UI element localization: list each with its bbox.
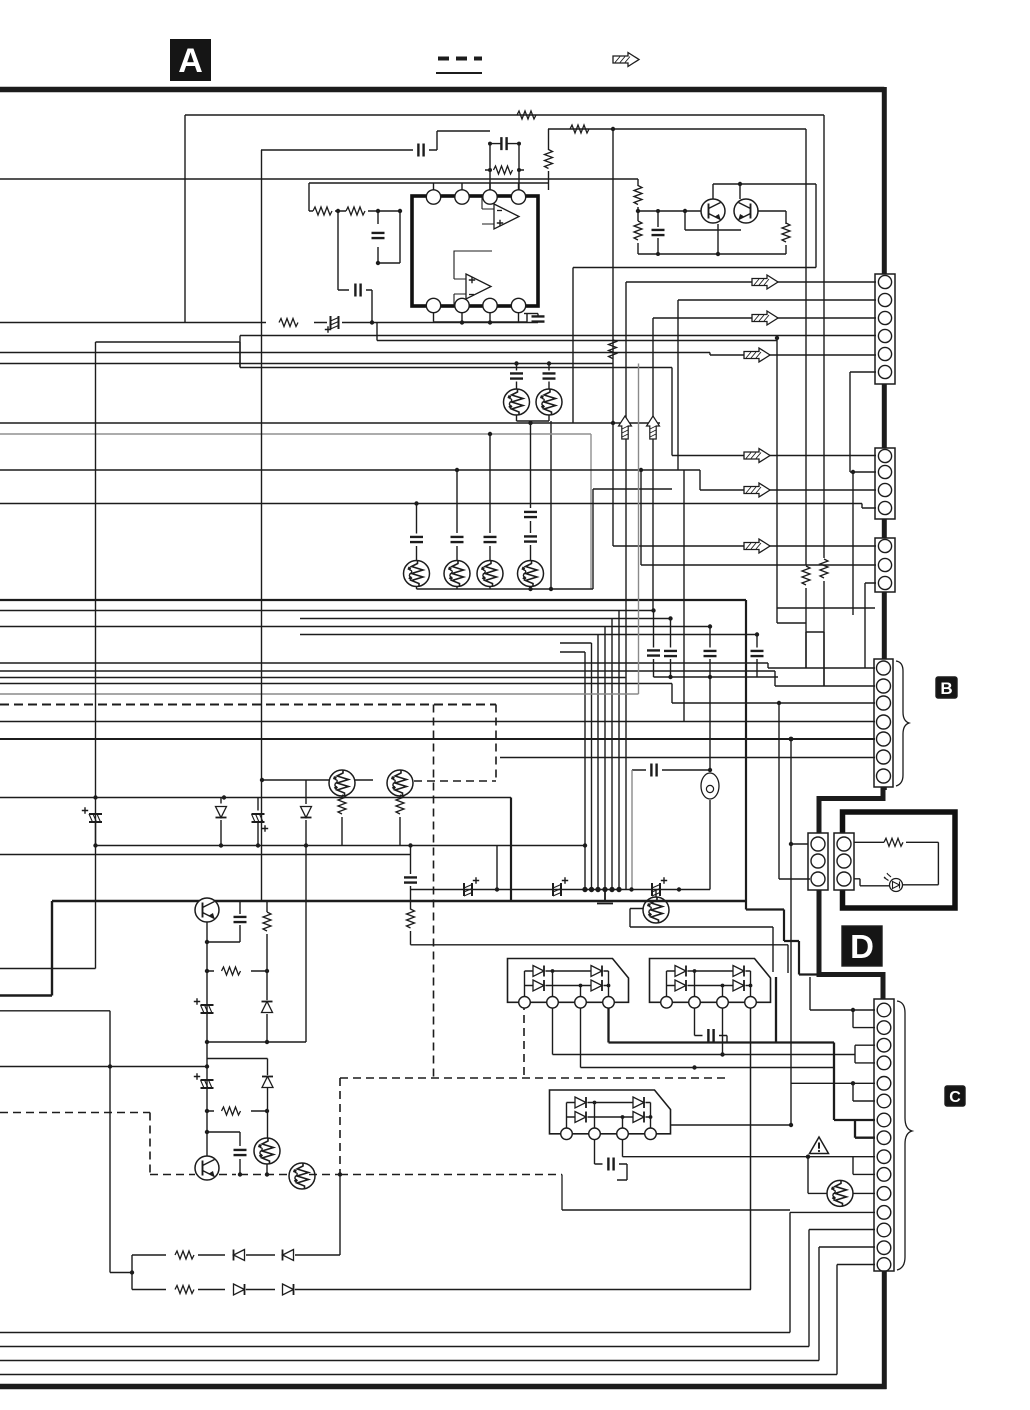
wire y1346: [0, 1346, 809, 1348]
diode D-row1a: [234, 1250, 245, 1261]
wire y503 to CN2 pin4: [0, 504, 876, 509]
connector CN-D1: [808, 833, 828, 890]
brace C: [897, 1001, 912, 1270]
brace B: [896, 661, 909, 786]
resistor R-L7: [338, 795, 346, 845]
wire y470 jog to CN2 pin3: [0, 470, 876, 490]
wire dm3 caps stubs: [595, 1139, 628, 1180]
wire y854: [0, 854, 411, 856]
block D box: [843, 812, 956, 908]
wire x95 vertical: [95, 342, 97, 969]
dashed x524: [523, 1002, 525, 1078]
diode D-221: [216, 798, 227, 846]
wire x806 from y129: [805, 129, 807, 565]
wire C pin13: [809, 1230, 875, 1347]
wire C pin5-6 bracket: [791, 1083, 875, 1101]
node j-1067-693: [692, 1065, 696, 1069]
capacitor bank C2: [664, 616, 677, 677]
node j-322-462: [460, 320, 464, 324]
wire y282 to CN1 pin1: [626, 282, 876, 889]
wire x132: [131, 1255, 133, 1290]
wire y599 thick: [0, 599, 746, 601]
wire CN3 pin3 down: [865, 583, 876, 668]
wire q-tops: [713, 184, 816, 199]
ic U1 pin circles bottom: [426, 298, 525, 312]
zener D-z464: [464, 877, 479, 896]
node j-211-400: [398, 209, 402, 213]
ic U1 pin circles top: [426, 190, 525, 204]
wire C pin1-2: [810, 977, 875, 1028]
resistor R-D: [853, 838, 938, 885]
wire x791 branch to CN-D1 pin1: [791, 843, 808, 845]
node j-211-685: [683, 209, 687, 213]
lamp L3: [404, 561, 430, 587]
node j-844-791: [789, 842, 793, 846]
dashed y1112: [0, 1112, 150, 1114]
lamp pair mid wire: [262, 779, 373, 781]
wire gray y694: [0, 364, 639, 695]
lamp L7: [329, 770, 355, 796]
wire q-bases: [638, 211, 741, 230]
node j-184-740: [738, 182, 742, 186]
node j-889-679: [677, 887, 681, 891]
node j-889-497: [495, 887, 499, 891]
wire y1332: [0, 1332, 790, 1334]
wire x824 from y115: [823, 115, 825, 558]
resistor R-mid1: [205, 967, 269, 975]
node j-1174-240: [238, 1172, 242, 1176]
wire y211: [309, 211, 400, 263]
zener D-z207a: [194, 998, 214, 1013]
wire y671 to B pin2: [0, 671, 875, 686]
wire y945: [411, 945, 789, 973]
connector CN1: [875, 274, 895, 384]
svg-text:D: D: [850, 928, 874, 965]
wire x261 vertical: [261, 150, 263, 901]
capacitor C-q3: [207, 901, 247, 942]
led D-led: [853, 873, 903, 892]
capacitor C-c: [355, 284, 372, 323]
node j-129-613: [611, 127, 615, 131]
ic U1: [412, 196, 538, 306]
resistor R-824: [820, 559, 828, 686]
capacitor C-b: [372, 209, 401, 265]
transistor Q3: [195, 898, 219, 922]
wire thick q-rail: [0, 901, 746, 996]
capacitor C-dm12: [695, 1028, 728, 1043]
resistor R-mid2: [205, 1107, 269, 1115]
dashed y1174 tail: [561, 1175, 563, 1211]
resistor R-410: [0, 890, 415, 969]
wire x684: [683, 470, 685, 722]
transistor Q4: [195, 1156, 219, 1180]
wire x806-b-drop: [823, 632, 825, 686]
wire y1042 join: [207, 846, 306, 1043]
wire dm2 pin3 drop: [722, 1008, 724, 1055]
resistor R-q-right: [758, 211, 790, 254]
zener D-z95: [82, 807, 102, 845]
svg-text:C: C: [949, 1089, 961, 1106]
wire y845 rail: [96, 845, 586, 847]
node j-1125-791: [789, 1123, 793, 1127]
wire cap bank bottom rail: [654, 676, 779, 678]
dashed y781 joining: [414, 780, 496, 782]
wire x410 cap chain: [410, 846, 412, 875]
node j-211-638: [636, 209, 640, 213]
node j-322-490: [488, 320, 492, 324]
zener D-322: [325, 316, 339, 333]
wire y423: [0, 421, 660, 589]
wire y683 to B pin3: [0, 684, 875, 704]
capacitor C-d: [524, 314, 545, 323]
ground rail y889: [411, 889, 711, 891]
wire y352 jog to CN1 pin5: [0, 353, 876, 356]
diode D-267b: [262, 1077, 273, 1140]
wire y1066: [0, 1066, 207, 1068]
dashed x150: [149, 1113, 151, 1175]
zener D-z553: [553, 877, 568, 896]
node j-1132-207: [205, 1130, 209, 1134]
node j-254-718: [716, 252, 720, 256]
wire y797: [0, 797, 511, 799]
connector CN3: [875, 538, 895, 592]
node j-589-530: [528, 587, 532, 591]
wire y1360: [0, 1360, 819, 1362]
resistor R-L8: [396, 795, 404, 845]
wire x207 chain: [206, 922, 208, 1156]
wire y632: [806, 632, 824, 668]
node j-470-641: [639, 468, 643, 472]
capacitor bank C1: [647, 608, 660, 677]
resistor R-row2: [175, 1286, 194, 1294]
wire x110 down: [110, 1011, 132, 1273]
zener D-z652: [652, 877, 667, 896]
wire y721 to B pin4: [0, 721, 875, 723]
block A top border: [0, 87, 884, 93]
node j-845-258: [256, 843, 260, 847]
signal arrow a1: [744, 348, 770, 362]
node j-1066-207: [205, 1064, 209, 1068]
wire pin stubs: [434, 183, 519, 322]
wire x497 drop: [496, 846, 498, 890]
wire x613 down: [612, 129, 614, 423]
ground symbol: [597, 890, 613, 904]
signal arrow a4: [744, 483, 770, 497]
zener D-z207b: [194, 1073, 214, 1088]
bus-rail junction dots: [583, 888, 621, 892]
node j-1272-132: [130, 1270, 134, 1274]
lamp L5: [477, 561, 503, 587]
node j-1054-721: [720, 1052, 724, 1056]
node j-472-853: [851, 470, 855, 474]
node j-845-221: [219, 843, 223, 847]
bottom stub loop under ic: [434, 314, 528, 323]
resistor R-row1: [175, 1251, 194, 1259]
node j-589-551: [549, 587, 553, 591]
resistor R-q1: [0, 179, 642, 211]
legend dashed line: [438, 57, 482, 61]
resistor R-322: [279, 319, 298, 327]
resistor R-612: [609, 340, 617, 359]
wire branch x338 down: [338, 211, 349, 290]
legend solid underline: [436, 72, 482, 74]
signal arrow a5: [744, 449, 770, 463]
node j-211-338: [336, 209, 340, 213]
wire lamp row bottom rail: [417, 489, 673, 589]
capacitor bank C3: [704, 624, 717, 770]
lamp L12: [827, 1180, 853, 1206]
wire x511 thick rise: [510, 798, 512, 902]
signal arrow a3: [752, 311, 778, 325]
lamp L10: [254, 1138, 280, 1174]
main dashed line y704: [0, 704, 496, 706]
wire y267: [573, 184, 816, 423]
warning triangle: [810, 1137, 829, 1154]
capacitor C-left: [261, 131, 490, 157]
wire x853 through CN2 pin2: [850, 472, 876, 615]
diode module DM1: [508, 959, 629, 1009]
wire y183: [309, 183, 549, 211]
wire y1058: [207, 1059, 268, 1076]
svg-text:A: A: [178, 42, 203, 80]
node j-797-224: [222, 795, 226, 799]
resistor R-top-vert: [545, 129, 553, 183]
node j-845-410: [408, 843, 412, 847]
wire feedback loop y115: [185, 115, 824, 322]
wire y677: [0, 677, 625, 679]
wire CN1 pin6 to x850: [850, 372, 876, 472]
wire C pin15: [837, 1265, 875, 1375]
up arrow u2: [647, 416, 660, 439]
wire oval drop: [709, 800, 711, 890]
wire y1374: [0, 1374, 837, 1376]
bus corner wires to cap bank: [0, 611, 654, 890]
wire y565 to CN3 pin2: [641, 470, 876, 565]
lamp L8: [387, 770, 413, 796]
wire C pin12: [790, 1212, 875, 1332]
resistor R-fb2: [570, 125, 589, 133]
node j-1010-853: [851, 1008, 855, 1012]
node j-1066-110: [108, 1064, 112, 1068]
wire y1067: [581, 1008, 835, 1068]
wire y623: [777, 608, 806, 623]
resistor R-q3: [263, 901, 271, 1000]
capacitor C-q: [652, 209, 665, 256]
svg-text:B: B: [940, 679, 952, 698]
node j-770-710: [708, 768, 712, 772]
wire x340 solid to diode row: [339, 1175, 341, 1256]
block A bottom border: [0, 1384, 887, 1390]
wire y322: [0, 322, 538, 324]
zener D-z258: [252, 798, 269, 846]
wire y739 heavy to B pin5: [0, 738, 875, 740]
node j-739-791: [789, 737, 794, 742]
wire y342 partial: [96, 342, 241, 368]
node j-845-306: [304, 843, 308, 847]
wire y663 to B pin1: [0, 663, 875, 668]
wire y1210: [562, 1209, 790, 1211]
resistor R-806: [802, 566, 810, 668]
wire y927: [630, 909, 773, 973]
op-amp U1b: [454, 251, 492, 306]
node j-677-710: [708, 675, 712, 679]
signal arrow a2: [752, 275, 778, 289]
lamp L11: [289, 1163, 315, 1189]
connector CN-B: [874, 659, 893, 787]
wire dm3 right to x791: [670, 1124, 791, 1126]
wire y300 to CN1 pin2: [678, 300, 876, 470]
transistor Q2: [734, 199, 758, 223]
wire diode row2: [132, 1289, 751, 1291]
node j-338-777: [775, 336, 779, 340]
wire x631 gray drop: [631, 770, 633, 890]
node j-845-95: [93, 843, 97, 847]
dashed y1078: [340, 1077, 727, 1079]
capacitor bank C4: [751, 632, 764, 677]
wire y1011: [0, 1010, 110, 1012]
diode D-306: [301, 780, 312, 845]
block A right border upper: [882, 87, 887, 790]
section label A: [170, 39, 211, 81]
wire y757 to B pin6: [500, 757, 875, 759]
wire dm12 cap stubs: [695, 1008, 728, 1042]
dashed y1174 right: [340, 1174, 562, 1176]
node j-942-207: [205, 940, 209, 944]
capacitor C-q4: [207, 1132, 247, 1175]
wire lamp to C pin11: [853, 1192, 875, 1194]
wire x746 thick staircase: [746, 600, 819, 975]
node j-1083-853: [851, 1081, 855, 1085]
resistor R-a: [313, 207, 332, 215]
wire x791 long down: [790, 739, 792, 1126]
node j-703-779: [777, 701, 781, 705]
node j-797-95: [93, 795, 97, 799]
wire y1054: [553, 1008, 876, 1063]
wire diode row1: [132, 1254, 340, 1256]
wire q-bottom-rail: [638, 224, 786, 254]
diode D-row1b: [283, 1250, 294, 1261]
wire y335 to CN1 pin4: [240, 336, 876, 368]
lamp L1: [504, 389, 530, 415]
diode D-row2a: [234, 1284, 245, 1295]
connector CN2: [875, 448, 895, 519]
section label C: [945, 1086, 965, 1106]
diode D-267a: [262, 1002, 273, 1043]
signal arrow a6: [744, 539, 770, 553]
connector CN-D2: [834, 833, 854, 890]
node j-889-631: [629, 887, 633, 891]
wire y434 gray: [0, 434, 591, 589]
node j-423-613: [611, 421, 615, 425]
capacitor C-top1: [488, 137, 521, 190]
dashed x340: [339, 1078, 341, 1175]
node j-1156-808: [806, 1155, 810, 1159]
dashed x496: [495, 705, 497, 782]
resistor R-q2: [634, 211, 642, 254]
resistor R-b: [346, 207, 365, 215]
node j-780-262: [260, 778, 264, 782]
node j-1174-267: [265, 1172, 269, 1176]
node j-677-670: [668, 675, 672, 679]
wire y318 to CN1 pin3: [653, 318, 876, 610]
wire C pin9-10: [623, 1139, 876, 1174]
wire C pin14: [819, 1247, 875, 1361]
resistor R-fb1: [505, 111, 545, 119]
capacitor C-oval: [632, 764, 710, 777]
node j-322-371: [370, 320, 374, 324]
wire dm2 pin4 long drop: [750, 1008, 752, 1290]
diode module DM2: [650, 959, 771, 1009]
lamp L2: [536, 389, 562, 415]
block boundary detour around D: [819, 785, 883, 836]
wire lamp pair bottoms: [517, 415, 552, 421]
node j-1042-267: [265, 1040, 269, 1044]
lamp pair top caps C-l1: [510, 361, 556, 389]
block A right border lower: [882, 1269, 887, 1389]
node j-845-585: [583, 843, 587, 847]
lamp L4: [444, 561, 470, 587]
wire x779 to CN-D1 pin3: [779, 703, 810, 879]
wire x777: [777, 338, 875, 608]
node j-1042-207: [205, 1040, 209, 1044]
wire y367 to CN2 pin1: [240, 368, 876, 456]
lamp L9: [643, 890, 669, 924]
photo sensor PS1: [701, 773, 719, 799]
resistor R-top-mid: [485, 166, 524, 174]
wire y340: [377, 323, 777, 341]
connector CN-C: [874, 999, 894, 1271]
dashed x433: [433, 705, 435, 1079]
wire y546 to CN3 pin1: [613, 423, 876, 546]
lamp row caps C-r1..C-r4: [410, 421, 537, 560]
thick wire dm1 pin4: [609, 977, 856, 1120]
node j-1174-340: [338, 1172, 342, 1176]
legend arrow: [613, 53, 639, 67]
transistor Q1: [701, 199, 725, 223]
op-amp U1a: [482, 197, 519, 229]
diode module DM3: [550, 1090, 671, 1140]
section label D: [842, 926, 882, 966]
capacitor C-dm3: [595, 1139, 628, 1171]
lamp L6: [518, 561, 544, 587]
up arrow u1: [619, 416, 632, 439]
wire y129: [548, 128, 806, 130]
dashed y1174 left: [150, 1174, 340, 1176]
thick bracket C pin7-8: [855, 1120, 875, 1138]
wire y363: [0, 363, 613, 365]
wire x808 drop to lamp: [808, 1157, 827, 1194]
capacitor C-410: [404, 877, 417, 889]
section label B: [936, 677, 957, 698]
diode D-row2b: [283, 1284, 294, 1295]
